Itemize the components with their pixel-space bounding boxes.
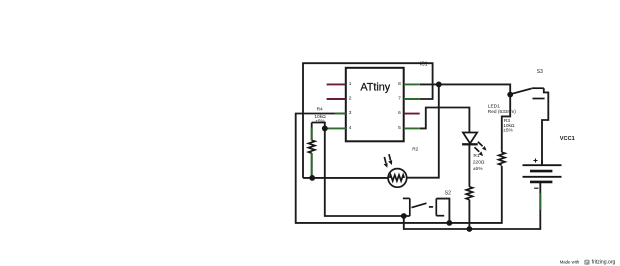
wire: S3 right pin to battery plus lead — [542, 88, 548, 165]
svg-text:220Ω: 220Ω — [473, 159, 485, 165]
junction node at S2 left — [401, 213, 407, 219]
svg-text:ATtiny: ATtiny — [360, 81, 390, 93]
junction node at S3 pivot — [507, 92, 513, 98]
switch S2 lever — [412, 203, 427, 207]
svg-text:IC1: IC1 — [420, 62, 428, 68]
svg-text:7: 7 — [398, 96, 401, 102]
resistor R4 bottom lead — [311, 153, 313, 178]
battery plus sign — [534, 159, 538, 163]
svg-text:±5%: ±5% — [503, 128, 513, 134]
pin 8 green leg — [404, 83, 420, 85]
op IC1 ATtiny box — [346, 68, 404, 142]
svg-text:S3: S3 — [537, 69, 543, 75]
svg-text:Red (633nm): Red (633nm) — [488, 109, 516, 115]
switch S2 left pin lead — [409, 198, 411, 216]
svg-text:4: 4 — [349, 125, 352, 131]
battery VCC1 plate short upper — [530, 170, 552, 173]
switch S3 pin lead — [532, 87, 544, 89]
svg-text:±5%: ±5% — [315, 118, 325, 124]
junction node at S2 right on bus1 — [447, 220, 453, 226]
resistor R1 top lead (from LED cathode) — [468, 144, 470, 186]
switch S2 right pin lead — [435, 199, 437, 216]
wire: S2 left node down to bus2, right to battery minus lead — [404, 182, 541, 229]
svg-text:R4: R4 — [317, 106, 323, 112]
junction node at pin 8 branch — [436, 82, 442, 88]
wire: S2 right pin to bus1 — [436, 199, 449, 223]
resistor R4 top lead — [311, 123, 313, 141]
wire: S3 pivot node down to R3 top — [502, 95, 510, 153]
svg-text:Made with: Made with — [560, 259, 580, 264]
junction node at R4 bottom / LDR row — [309, 175, 315, 181]
resistor R4 green leg bottom — [311, 153, 313, 175]
svg-text:8: 8 — [398, 81, 401, 87]
switch S2 right pin bottom tick — [436, 215, 444, 217]
pin 6 red stub — [404, 113, 420, 115]
pin 7 green leg — [404, 98, 420, 100]
photoresistor R2 zigzag — [390, 175, 405, 181]
photoresistor R2 light arrow upper — [389, 154, 391, 160]
switch S3 fixed contact bar — [533, 98, 545, 100]
pin 5 green leg — [404, 127, 420, 129]
svg-text:±5%: ±5% — [473, 166, 483, 172]
svg-text:VCC1: VCC1 — [560, 136, 575, 142]
junction node at R1 bottom on bus2 — [467, 226, 473, 232]
svg-text:3: 3 — [349, 110, 352, 116]
pin 1 red stub — [327, 83, 346, 85]
svg-text:R2: R2 — [412, 146, 418, 152]
svg-text:6: 6 — [398, 110, 401, 116]
wire: pin 8 branch down to LDR right — [407, 84, 439, 177]
junction node at pin 4 — [322, 125, 328, 131]
resistor R4 green leg top — [311, 128, 313, 141]
pin 3 green leg — [335, 113, 346, 115]
photoresistor R2 circle — [388, 169, 407, 188]
battery VCC1 top lead — [541, 160, 543, 165]
wire: pin 4 jog to R4 top — [312, 123, 325, 129]
resistor R4 zigzag — [309, 140, 315, 153]
wire: left loop from LDR-left node up, top bus, down to pin 7 — [303, 63, 433, 178]
switch S2 fixed contact bar — [429, 206, 433, 208]
battery VCC1 plate short lower — [530, 181, 552, 184]
battery VCC1 plate long bottom — [523, 176, 562, 178]
svg-text:1: 1 — [349, 81, 352, 87]
wire: pin 4 node down to S2 left pin — [325, 128, 410, 216]
wire: LDR row left segment — [303, 177, 388, 179]
wire: pin 8 to S3 pivot node — [420, 84, 510, 94]
LED1 triangle — [463, 133, 477, 144]
LED1 emission arrow upper — [478, 142, 483, 146]
resistor R3 zigzag — [499, 152, 505, 165]
wire: pin 5 up and over to LED anode — [420, 108, 470, 133]
pin 4 green leg — [326, 127, 346, 129]
svg-text:5: 5 — [398, 125, 401, 131]
switch S2 left pin tick — [403, 197, 410, 199]
svg-text:R1: R1 — [473, 153, 479, 159]
svg-text:S2: S2 — [445, 190, 451, 196]
battery VCC1 plate long top — [523, 164, 562, 166]
battery VCC1 bottom green leg — [539, 193, 541, 210]
resistor R1 zigzag — [466, 187, 472, 200]
switch S3 lever — [510, 89, 531, 95]
svg-text:fritzing.org: fritzing.org — [592, 260, 616, 266]
resistor R1 bottom lead — [468, 200, 470, 229]
battery minus sign — [534, 187, 538, 189]
LED1 emission arrow lower — [475, 147, 480, 151]
svg-text:2: 2 — [349, 96, 352, 102]
watermark fritzing logo — [584, 260, 589, 265]
photoresistor R2 light arrow lower — [384, 157, 386, 163]
LED1 cathode bar — [462, 143, 478, 145]
pin 2 red stub — [327, 98, 346, 100]
wire: pin 3 to outer-left vertical, bus1, up to R3 bottom — [296, 114, 502, 223]
svg-text:LED1: LED1 — [488, 104, 500, 110]
